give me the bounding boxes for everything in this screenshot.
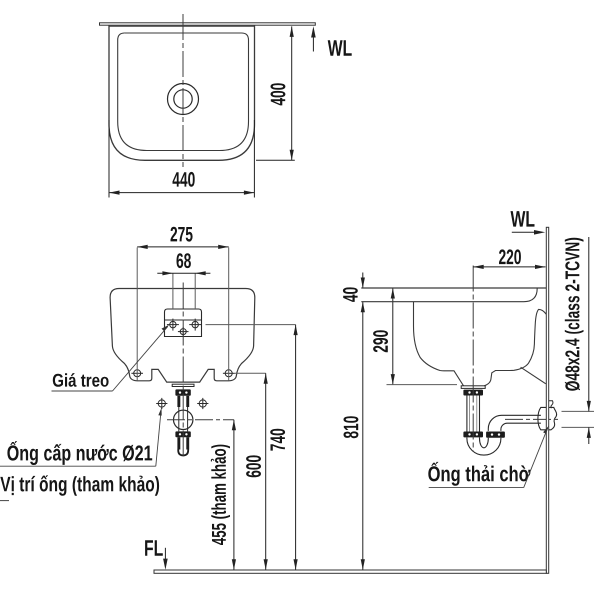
dimension text 220 [499,249,521,264]
extension line 290 bottom [387,384,458,386]
sink outer outline (top view) [109,25,255,160]
bowl-to-wall diagonal line (side view) [521,367,546,384]
trap right nut (side view) [486,432,505,438]
water supply pipe position right [197,398,208,409]
water supply pipe position left [156,398,167,409]
dimension text 400 [271,83,286,105]
drain lower nut (front view) [175,431,190,437]
stub pipe clip detail above flange [547,401,553,409]
dimension O48 extension lines [562,411,595,427]
dimension text 68 [177,253,191,268]
dimension 600 line [265,373,267,570]
drain pipe upper section (front view) [177,396,180,407]
extension line bracket hole to 740 [206,324,296,326]
leader line Ong thai cho [429,487,524,489]
trap lower nut (side view) [463,432,483,438]
trap elbow and horizontal arm (side view) [488,415,541,431]
centerline vertical (side view) [472,266,474,453]
WL text (top view) [328,40,352,56]
drain flange (front view) [172,384,194,386]
dimension 810 line (shared arrow with 40) [362,302,364,570]
bracket horizontal line [165,319,202,321]
centerline vertical (top view) [182,14,184,167]
sink inner bowl outline (top view) [118,33,249,151]
tailpiece pipe (side view) [467,396,480,432]
drain outer circle (top view) [168,84,199,115]
dimension 68 [173,273,195,309]
drain top nut (front view) [175,389,190,395]
tailpiece top nut (side view) [463,390,483,396]
label Ong thai cho [428,462,530,486]
hanger bracket Gia treo outline [165,309,202,337]
label Gia treo [53,373,109,387]
bracket right hole [189,319,201,331]
centerline vertical (front view) [182,283,184,459]
dimension text 600 [246,455,261,477]
dimension text 740 [270,429,285,451]
drain flange (side view) [461,386,485,389]
WL arrow (side view) [512,231,542,233]
centerline horizontal through trap (front view) [167,419,234,421]
right hanger ear hole [223,370,235,377]
dimension 400 line [256,26,295,160]
dimension text 275 [171,227,193,242]
centerline horizontal trap arm (side view) [505,418,561,420]
rim top line (side view) [361,287,546,289]
leader line Ong cap nuoc [0,465,156,467]
bracket center hole [178,327,189,336]
FL arrow [164,548,166,566]
drain pipe bottom cap (front view) [178,450,188,456]
floor line FL [154,570,546,573]
trap circle (front view) [174,410,193,429]
basin outer front wall (side view) [414,302,464,386]
dimension 740 line [295,325,297,570]
dimension 455 line [233,420,235,570]
dimension 440 line [109,120,254,198]
dimension text 455 (tham khao) [211,445,230,545]
drain inner circle (top view) [174,90,192,108]
sink body outline (front view) [110,289,255,383]
dimension text 290 [373,330,388,352]
basin back wall (side view) [484,309,546,385]
left hanger ear hole [131,370,143,377]
waste stub flange at wall (side view) [538,407,557,429]
underline stub below Vi tri ong [0,500,9,502]
drain pipe lower section (front view) [177,437,180,449]
bracket left hole [167,319,179,331]
wall line (side view) [546,227,548,573]
dimension 220 [473,266,545,268]
dimension O48 line [588,237,590,411]
dimension text 440 [173,172,195,187]
dimension 40 upper line [362,273,364,289]
dimension text 810 [344,416,359,438]
dimension text O48x2.4 (class 2-TCVN) [565,238,584,391]
U bend (side view) [467,438,501,456]
dimension text 40 [343,287,358,302]
dimension 275 [137,248,229,381]
FL text [145,540,163,556]
extension line ear hole to 600 [235,372,266,374]
dimension 290 line [392,288,394,385]
label Vi tri ong (tham khao) [0,475,159,496]
WL arrow (top view) [312,30,314,52]
rim bottom line with back fillet (side view) [361,288,537,301]
label Ong cap nuoc O21 [7,441,152,465]
wall line WL (top view) [100,23,316,25]
WL text (side view) [511,211,535,227]
leader line Gia treo [113,326,168,391]
